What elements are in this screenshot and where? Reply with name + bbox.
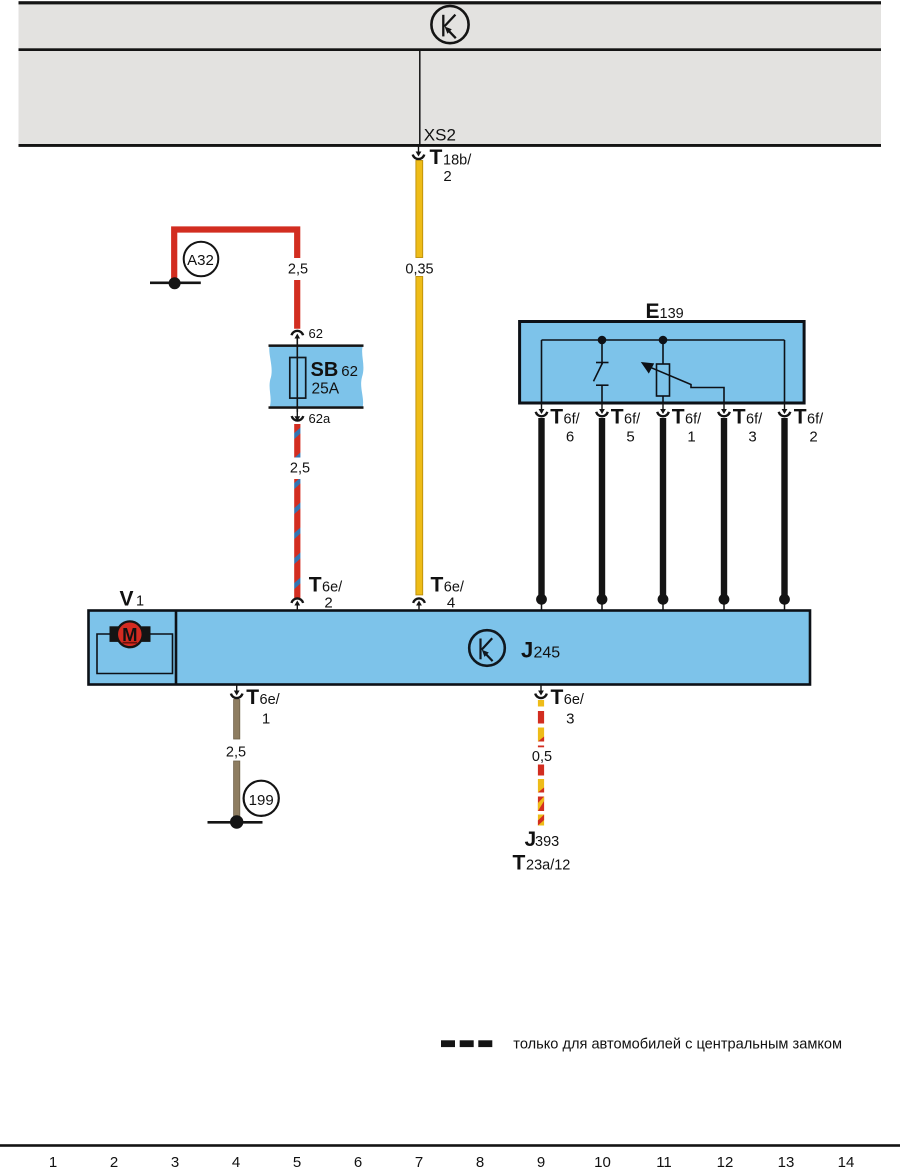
svg-text:SB: SB bbox=[311, 359, 339, 381]
svg-text:2: 2 bbox=[809, 428, 817, 445]
svg-text:25A: 25A bbox=[312, 381, 340, 398]
svg-text:3: 3 bbox=[748, 428, 756, 445]
svg-text:6: 6 bbox=[354, 1154, 362, 1169]
bus line 1 (top) bbox=[19, 1, 882, 4]
ground point 199 bbox=[244, 781, 279, 816]
svg-text:6e/: 6e/ bbox=[260, 692, 281, 708]
wire black T6f/2 to J245 bbox=[779, 418, 790, 611]
svg-text:6f/: 6f/ bbox=[564, 412, 581, 428]
pin T6e/1 (bottom of J245) bbox=[231, 685, 281, 728]
svg-text:2,5: 2,5 bbox=[226, 745, 246, 761]
svg-text:E: E bbox=[646, 300, 660, 323]
connector 62 (socket + pin arrow) bbox=[292, 331, 304, 335]
pin T6e/3 (bottom of J245) bbox=[535, 685, 585, 728]
wire yellow/red 0.5 dashed (T6e/3 to J393) bbox=[538, 700, 544, 826]
svg-text:2: 2 bbox=[324, 595, 332, 612]
svg-text:5: 5 bbox=[626, 428, 634, 445]
svg-text:T: T bbox=[551, 686, 564, 709]
divider V1 compartment bbox=[175, 611, 178, 685]
node A32 (connection in harness) bbox=[184, 242, 219, 277]
symbol K in circle (J245) bbox=[469, 630, 505, 666]
wire brown 2.5 (T6e/1 to ground 199) bbox=[234, 700, 240, 740]
svg-text:T: T bbox=[513, 852, 526, 875]
svg-text:2,5: 2,5 bbox=[290, 461, 310, 477]
leg to pin T6f/6 bbox=[541, 340, 543, 403]
connector 62a (socket + pin arrow) bbox=[296, 408, 298, 417]
svg-text:4: 4 bbox=[447, 595, 455, 612]
wiring harness band (gray) bbox=[19, 2, 882, 146]
svg-text:T: T bbox=[246, 686, 259, 709]
svg-text:4: 4 bbox=[232, 1154, 240, 1169]
fuse panel SB62 (torn blue box) bbox=[269, 345, 363, 408]
wire through fuse bbox=[296, 338, 298, 412]
svg-text:5: 5 bbox=[293, 1154, 301, 1169]
svg-text:A32: A32 bbox=[187, 252, 214, 269]
svg-text:T: T bbox=[733, 406, 746, 429]
svg-text:1: 1 bbox=[687, 428, 695, 445]
svg-text:62: 62 bbox=[341, 363, 358, 380]
svg-text:1: 1 bbox=[262, 710, 270, 727]
pin T6e/4 (top of J245) bbox=[413, 574, 465, 612]
svg-text:11: 11 bbox=[656, 1154, 672, 1169]
junction node (rheostat) bbox=[659, 336, 668, 345]
svg-text:M: M bbox=[122, 624, 137, 645]
rheostat (resistor with wiper arrow) bbox=[650, 340, 724, 403]
svg-text:1: 1 bbox=[136, 594, 144, 610]
svg-text:3: 3 bbox=[171, 1154, 179, 1169]
svg-text:62: 62 bbox=[309, 326, 323, 341]
pin T6f/6 bbox=[536, 403, 581, 445]
bus line 3 (harness bottom) bbox=[19, 144, 882, 147]
legend dashed sample bbox=[441, 1040, 455, 1047]
svg-text:T: T bbox=[431, 574, 444, 597]
svg-text:62a: 62a bbox=[309, 411, 331, 426]
svg-text:18b/: 18b/ bbox=[443, 153, 472, 169]
svg-text:2: 2 bbox=[110, 1154, 118, 1169]
ground junction dot bbox=[230, 815, 243, 828]
wire stub at junction bbox=[150, 281, 201, 284]
svg-text:6e/: 6e/ bbox=[564, 692, 585, 708]
svg-text:6f/: 6f/ bbox=[746, 412, 763, 428]
symbol K in circle (top) bbox=[431, 6, 468, 43]
svg-text:0,35: 0,35 bbox=[405, 261, 433, 277]
current track numbers bbox=[49, 1154, 855, 1169]
svg-text:T: T bbox=[309, 574, 322, 597]
svg-text:199: 199 bbox=[249, 792, 274, 809]
svg-text:T: T bbox=[430, 146, 443, 169]
svg-text:245: 245 bbox=[534, 645, 561, 662]
leg to pin T6f/2 bbox=[784, 340, 786, 403]
svg-text:T: T bbox=[794, 406, 807, 429]
motor V1 wiring loop bbox=[97, 634, 173, 674]
svg-text:6e/: 6e/ bbox=[444, 580, 465, 596]
wire red (below size label) bbox=[294, 280, 300, 329]
svg-text:6e/: 6e/ bbox=[322, 580, 343, 596]
svg-text:6f/: 6f/ bbox=[624, 412, 641, 428]
motor brushes bbox=[110, 626, 119, 642]
motor V1 (M symbol) bbox=[117, 621, 143, 647]
wire black T6f/6 to J245 bbox=[536, 418, 547, 611]
svg-text:только для автомобилей с центр: только для автомобилей с центральным зам… bbox=[513, 1037, 842, 1053]
wire black T6f/3 to J245 bbox=[719, 418, 730, 611]
current track rule bbox=[0, 1144, 900, 1147]
ground strap bbox=[208, 821, 263, 824]
svg-text:14: 14 bbox=[838, 1154, 855, 1169]
svg-text:23a/12: 23a/12 bbox=[526, 858, 570, 874]
pin T6f/2 bbox=[779, 403, 824, 445]
svg-text:T: T bbox=[550, 406, 563, 429]
svg-text:13: 13 bbox=[778, 1154, 795, 1169]
bus line 2 bbox=[19, 48, 882, 51]
svg-text:2: 2 bbox=[443, 168, 451, 185]
wire from symbol K down through harness bbox=[419, 50, 421, 146]
pin T6f/1 bbox=[657, 403, 702, 445]
svg-text:T: T bbox=[611, 406, 624, 429]
junction dot bbox=[169, 277, 181, 289]
fuse element SB62 bbox=[290, 358, 306, 399]
control unit J245 (box) bbox=[89, 611, 811, 685]
wire yellow 0.35 (T18b/2 to J245 T6e/4) bbox=[416, 161, 423, 258]
svg-text:8: 8 bbox=[476, 1154, 484, 1169]
wire black T6f/5 to J245 bbox=[597, 418, 608, 611]
svg-text:3: 3 bbox=[566, 710, 574, 727]
svg-text:0,5: 0,5 bbox=[532, 749, 552, 765]
svg-text:J: J bbox=[521, 638, 533, 663]
svg-text:12: 12 bbox=[717, 1154, 734, 1169]
pin T6e/2 (top of J245) bbox=[292, 574, 344, 612]
pin T6f/3 bbox=[718, 403, 763, 445]
svg-text:2,5: 2,5 bbox=[288, 261, 308, 277]
svg-text:6: 6 bbox=[566, 428, 574, 445]
svg-text:139: 139 bbox=[660, 306, 684, 322]
svg-text:V: V bbox=[120, 588, 134, 611]
connector T18b/2 (arrow + socket) bbox=[413, 146, 472, 185]
svg-text:1: 1 bbox=[49, 1154, 57, 1169]
svg-text:10: 10 bbox=[594, 1154, 611, 1169]
internal bus wire bbox=[542, 339, 785, 341]
svg-text:6f/: 6f/ bbox=[807, 412, 824, 428]
wire red/blue 2.5 (fuse to J245) bbox=[294, 424, 300, 458]
svg-text:T: T bbox=[672, 406, 685, 429]
svg-text:9: 9 bbox=[537, 1154, 545, 1169]
wire red 2.5 from A32 junction to fuse SB62 bbox=[174, 230, 297, 287]
junction node (switch) bbox=[598, 336, 607, 345]
wire black T6f/1 to J245 bbox=[658, 418, 669, 611]
svg-text:XS2: XS2 bbox=[424, 126, 456, 145]
pin T6f/5 bbox=[596, 403, 641, 445]
svg-text:393: 393 bbox=[535, 834, 559, 850]
svg-text:6f/: 6f/ bbox=[685, 412, 702, 428]
switch contact bbox=[594, 340, 609, 403]
svg-text:7: 7 bbox=[415, 1154, 423, 1169]
